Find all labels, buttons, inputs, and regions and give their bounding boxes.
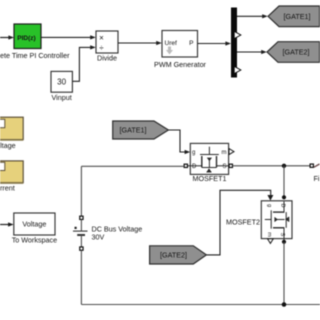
svg-text:[GATE1]: [GATE1] (119, 126, 146, 135)
wire Vinput to Divide (72, 45, 95, 81)
wire left rail vertical (top) (80, 166, 82, 216)
svg-text:Vinput: Vinput (51, 93, 71, 102)
wire PWM Generator to Demux (198, 41, 232, 45)
output port square to filter (310, 164, 313, 167)
MOSFET2 source node dot (282, 240, 286, 244)
wire left rail vertical (bottom) (80, 250, 82, 304)
svg-text:m: m (266, 232, 272, 237)
PID block Discrete Time PI Controller (0, 24, 70, 60)
wire battery to bottom port (80, 235, 82, 247)
svg-text:PWM Generator: PWM Generator (154, 60, 207, 69)
wire MOSFET2 source down to bottom rail (283, 242, 285, 305)
svg-text:D: D (192, 164, 197, 170)
wire Demux to Goto GATE1 (237, 14, 268, 18)
wire port to battery plate (80, 220, 82, 231)
Demux bar (231, 8, 237, 78)
MOSFET2 block (226, 195, 292, 244)
svg-text:m: m (222, 150, 227, 156)
wire PID to Divide (41, 35, 96, 39)
svg-text:[GATE2]: [GATE2] (282, 48, 309, 57)
svg-text:Voltage: Voltage (0, 141, 16, 150)
From tag GATE1 (113, 121, 169, 139)
wire MOSFET1 source to output node (233, 165, 310, 167)
bottom rail wire (81, 304, 320, 306)
svg-text:S: S (222, 164, 226, 170)
MOSFET2 gate arrow (267, 195, 273, 201)
svg-text:MOSFET1: MOSFET1 (193, 174, 227, 183)
MOSFET1 S port (229, 164, 232, 167)
MOSFET1 unconnected m port (229, 149, 234, 155)
svg-text:Divide: Divide (97, 53, 117, 62)
Goto tag GATE1 (268, 6, 320, 27)
svg-text:[GATE1]: [GATE1] (283, 12, 310, 21)
wire From GATE2 to MOSFET2 gate (206, 190, 270, 255)
constant block Vinput value 30 (51, 71, 72, 102)
MOSFET2 drain node dot (282, 195, 286, 199)
svg-text:Voltage: Voltage (22, 220, 46, 229)
measurement block Current (clipped) (0, 161, 23, 192)
svg-text:g: g (266, 204, 272, 207)
svg-text:g: g (192, 150, 195, 156)
PWM Generator block (154, 31, 207, 69)
svg-text:÷: ÷ (99, 44, 104, 53)
svg-text:30V: 30V (92, 233, 105, 242)
svg-text:30: 30 (57, 78, 66, 87)
MOSFET1 D port (184, 164, 187, 167)
svg-text:[GATE2]: [GATE2] (160, 251, 187, 260)
Divide block (96, 31, 118, 62)
measurement block Voltage (clipped) (0, 117, 23, 150)
node junction at output (282, 164, 286, 168)
wire Divide to PWM Generator (118, 41, 162, 45)
svg-text:MOSFET2: MOSFET2 (226, 218, 260, 227)
Goto tag GATE2 (267, 42, 320, 63)
svg-text:×: × (99, 34, 104, 43)
To Workspace block Voltage (0, 213, 57, 244)
wire input to PI controller (0, 35, 14, 39)
svg-text:To Workspace: To Workspace (12, 235, 57, 244)
DC source bottom port (80, 247, 83, 250)
svg-text:Current: Current (0, 183, 15, 192)
shadow edges yellow blocks (0, 139, 23, 141)
svg-text:PID(z): PID(z) (17, 35, 35, 42)
MOSFET2 m port unconnected (268, 239, 274, 244)
partial filter block edge (314, 164, 320, 167)
node junction bottom (282, 302, 287, 307)
svg-text:D: D (280, 204, 286, 208)
svg-text:Fil: Fil (314, 174, 320, 183)
wire From GATE1 to MOSFET1 gate (168, 130, 190, 154)
unconnected demux port 1 (234, 31, 241, 38)
wire Demux to Goto GATE2 (237, 50, 267, 54)
svg-text:Discrete Time PI Controller: Discrete Time PI Controller (0, 51, 70, 60)
DC source top port (80, 216, 83, 219)
svg-text:Uref: Uref (165, 40, 177, 47)
unconnected demux port 2 (234, 66, 241, 73)
MOSFET2 internal symbol (rotated) (265, 202, 289, 241)
wire left rail top (battery to MOSFET1 drain) (81, 165, 184, 167)
MOSFET1 internal symbol (188, 147, 229, 172)
svg-text:P: P (189, 40, 193, 47)
wire output node down to MOSFET2 drain (283, 166, 285, 197)
battery DC Bus Voltage 30V (73, 225, 142, 242)
MOSFET1 block (184, 143, 234, 183)
From tag GATE2 (150, 246, 207, 264)
